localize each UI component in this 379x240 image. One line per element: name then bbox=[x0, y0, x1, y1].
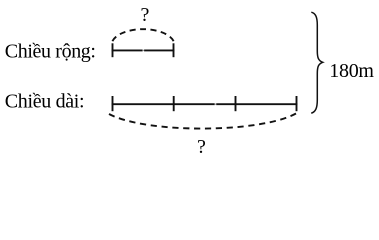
label "Chiều rộng:" bbox=[5, 41, 96, 63]
length bar tick 2 bbox=[173, 96, 175, 111]
width bar right tick bbox=[173, 43, 175, 57]
length bar line bbox=[112, 103, 298, 105]
width bar line bbox=[112, 49, 175, 51]
label "180m" bbox=[329, 60, 374, 82]
svg-text:Chiều dài:: Chiều dài: bbox=[5, 91, 84, 113]
svg-text:Chiều rộng:: Chiều rộng: bbox=[5, 41, 96, 63]
svg-text:?: ? bbox=[141, 4, 150, 26]
label "Chiều dài:" bbox=[5, 91, 84, 113]
question mark ? (width) bbox=[141, 4, 150, 26]
length bar tick 3 bbox=[235, 96, 237, 111]
length bar tick 1 bbox=[112, 96, 114, 111]
curly brace } bbox=[311, 12, 323, 113]
svg-text:?: ? bbox=[197, 136, 206, 158]
width bar left tick bbox=[112, 43, 114, 57]
dashed curve under length bar bbox=[109, 114, 296, 129]
question mark ? (length) bbox=[197, 136, 206, 158]
svg-text:180m: 180m bbox=[329, 60, 374, 82]
length bar tick 4 bbox=[296, 96, 298, 111]
dashed arc over width bar bbox=[112, 29, 173, 41]
